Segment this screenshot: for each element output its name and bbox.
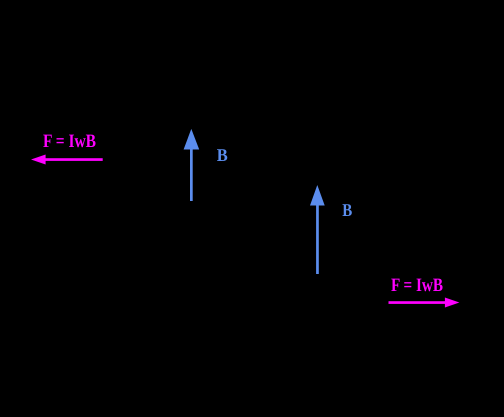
svg-text:F = IwB: F = IwB xyxy=(43,131,96,152)
field arrow B2 (upward, blue) xyxy=(310,185,325,274)
svg-text:B: B xyxy=(342,200,352,220)
force arrow F2 (right-pointing, magenta) xyxy=(389,298,460,308)
svg-text:F = IwB: F = IwB xyxy=(391,275,443,296)
force arrow F1 (left-pointing, magenta) xyxy=(31,155,103,165)
svg-text:B: B xyxy=(217,145,228,165)
field arrow B1 (upward, blue) xyxy=(184,129,200,201)
